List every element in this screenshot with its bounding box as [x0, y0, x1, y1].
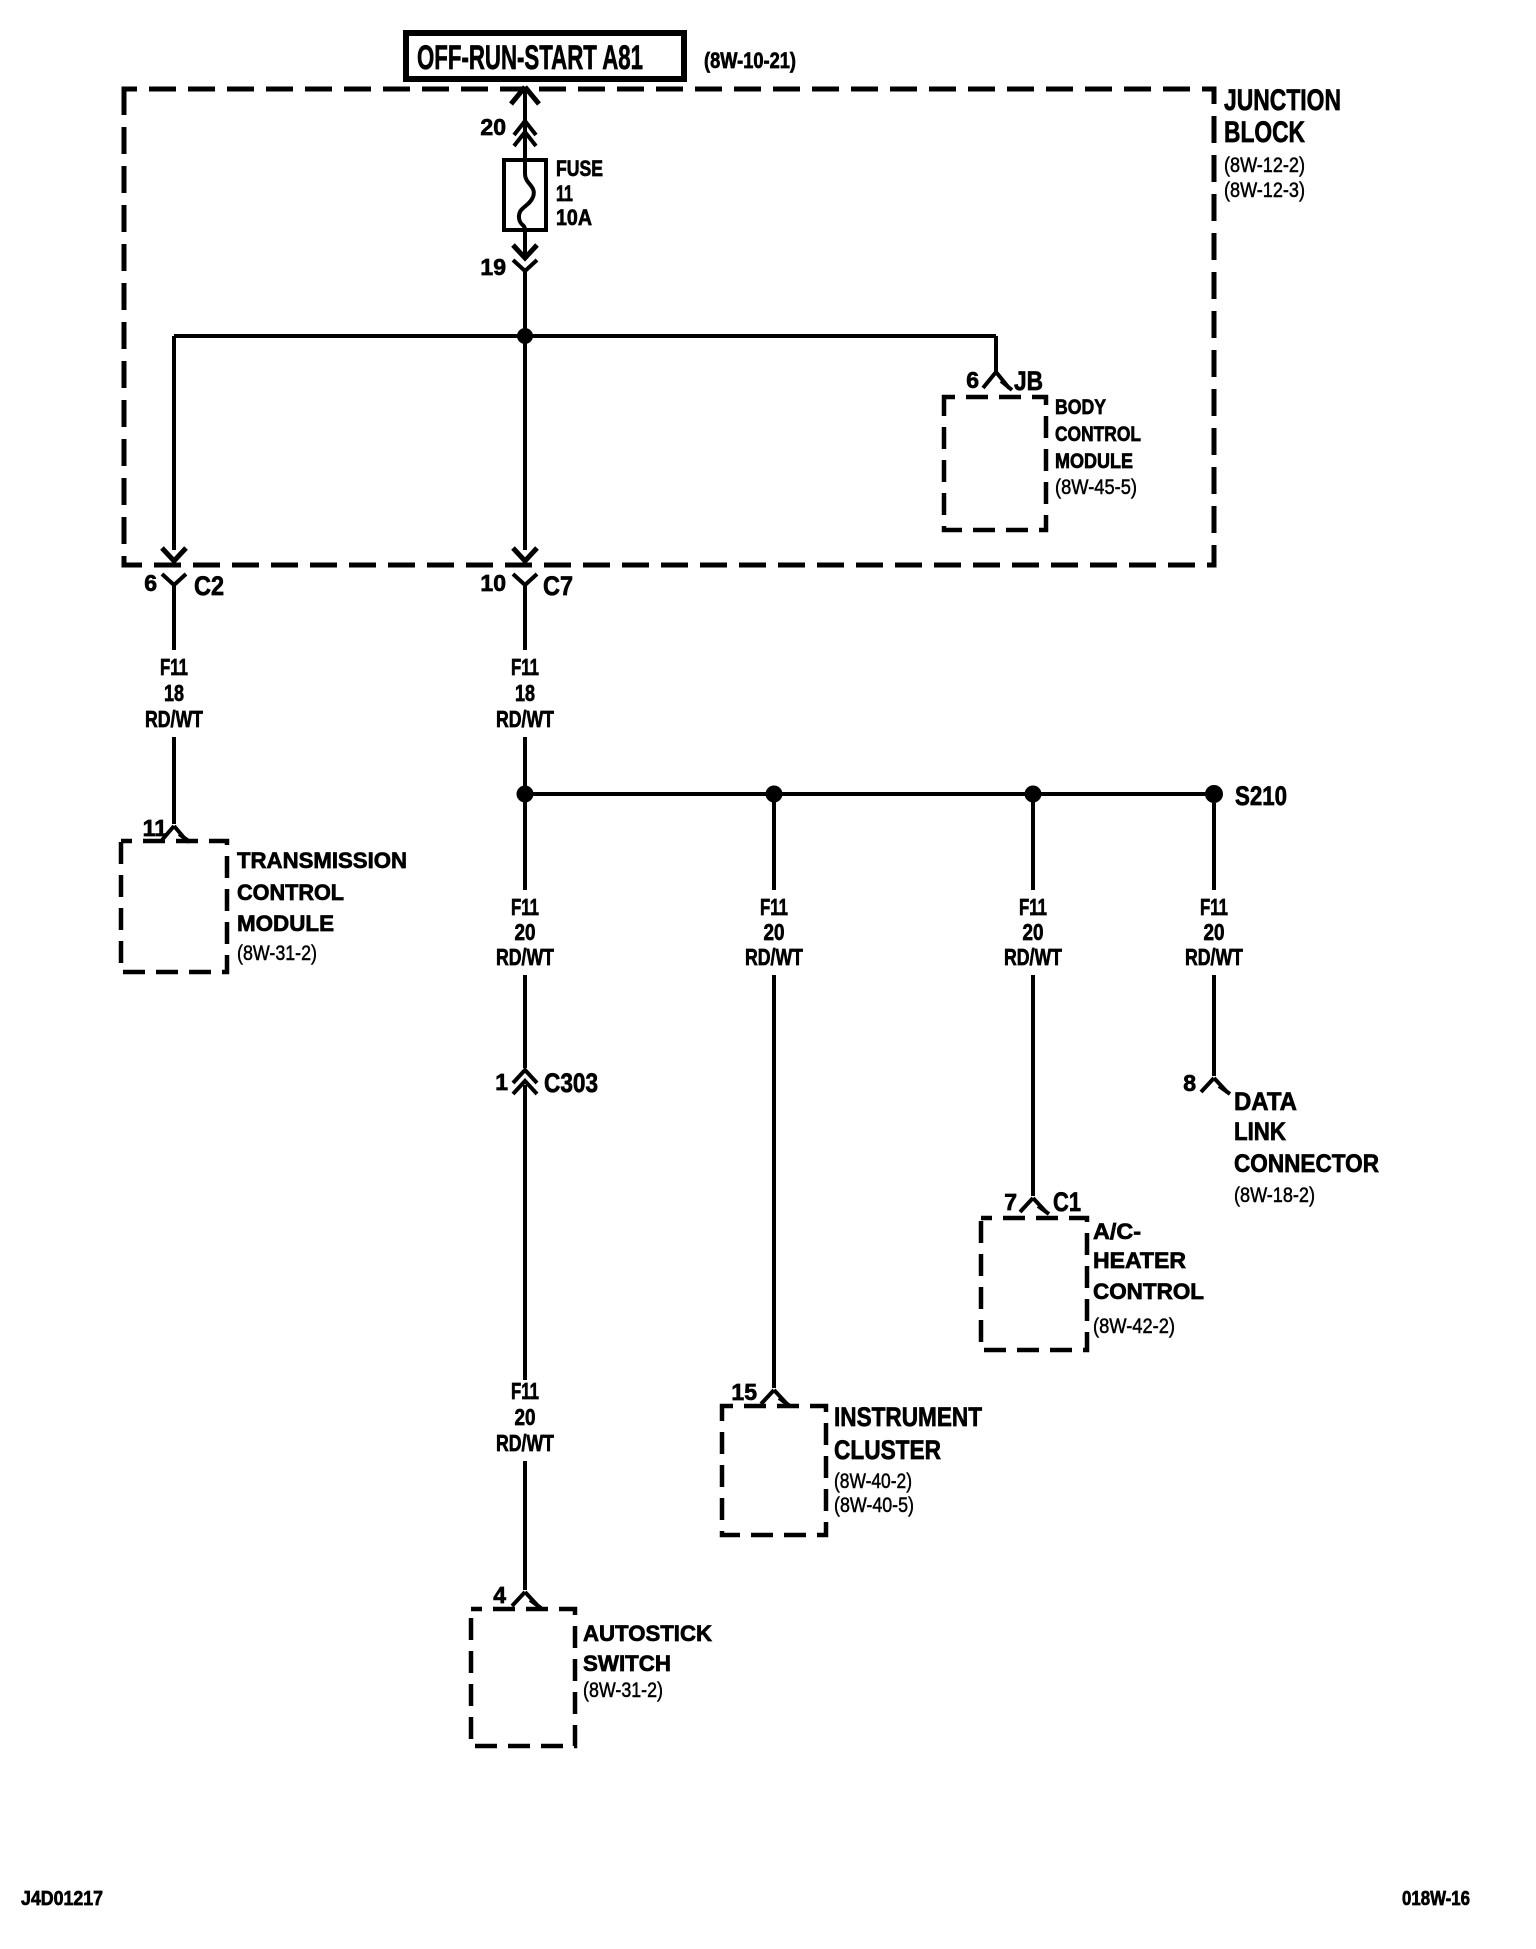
node A81 title box OFF-RUN-START: [406, 33, 684, 79]
wire col2 to instrument cluster: [772, 975, 776, 1388]
junction dot: [517, 328, 533, 344]
svg-text:RD/WT: RD/WT: [496, 944, 554, 970]
autostick switch dashed box: [471, 1609, 712, 1746]
svg-text:F11: F11: [160, 654, 188, 680]
svg-text:10A: 10A: [556, 205, 592, 230]
wire right branch to body control module: [994, 336, 998, 372]
svg-text:RD/WT: RD/WT: [745, 944, 803, 970]
svg-text:F11: F11: [511, 654, 539, 680]
wire to autostick switch: [523, 1461, 527, 1590]
svg-text:20: 20: [1023, 919, 1044, 945]
svg-text:F11: F11: [511, 1378, 539, 1404]
wire label F11 20 RD/WT (col1 lower): [496, 1378, 554, 1456]
svg-text:F11: F11: [1019, 894, 1047, 920]
wire label F11 18 RD/WT (center): [496, 654, 554, 732]
wire col1 below bus: [523, 802, 527, 890]
wire label F11 20 RD/WT (col2): [745, 894, 803, 970]
connector pin 4: [493, 1582, 541, 1608]
svg-text:C303: C303: [544, 1068, 598, 1098]
svg-text:(8W-31-2): (8W-31-2): [237, 942, 317, 965]
svg-text:LINK: LINK: [1234, 1118, 1286, 1146]
wire label F11 20 RD/WT (col3): [1004, 894, 1062, 970]
fuse F11 (FUSE 11 10A): [504, 156, 603, 230]
connector pin 11: [143, 815, 190, 842]
svg-text:(8W-12-2): (8W-12-2): [1224, 154, 1305, 177]
svg-text:20: 20: [480, 114, 506, 140]
svg-text:6: 6: [144, 570, 157, 596]
svg-text:DATA: DATA: [1234, 1088, 1297, 1116]
svg-text:19: 19: [480, 254, 506, 280]
svg-text:S210: S210: [1235, 781, 1287, 811]
wire col4 to data link connector: [1212, 975, 1216, 1076]
connector pin 8: [1183, 1070, 1230, 1096]
svg-text:CONTROL: CONTROL: [1093, 1279, 1204, 1304]
svg-text:C1: C1: [1053, 1187, 1081, 1217]
connector C303 pin 1 double chevron: [495, 1068, 598, 1098]
body control module dashed box: [944, 396, 1141, 530]
connector JB pin 6: [966, 366, 1043, 396]
svg-text:HEATER: HEATER: [1093, 1248, 1186, 1273]
data link connector label: [1234, 1088, 1379, 1207]
connector C2 pin 6: [144, 570, 224, 650]
svg-text:F11: F11: [511, 894, 539, 920]
svg-text:7: 7: [1004, 1189, 1017, 1215]
wire label F11 18 RD/WT (left): [145, 654, 203, 732]
svg-text:(8W-45-5): (8W-45-5): [1055, 476, 1137, 499]
pin 19 terminal: down arrow and Y: [480, 230, 537, 336]
svg-text:A/C-: A/C-: [1093, 1219, 1141, 1244]
svg-text:BODY: BODY: [1055, 396, 1106, 419]
svg-text:4: 4: [493, 1582, 506, 1608]
connector C7 pin 10: [480, 570, 573, 650]
splice bus wire S210: [525, 792, 1214, 796]
junction block dashed box: [124, 89, 1214, 565]
horizontal wire in junction block: [174, 334, 996, 338]
svg-text:CONTROL: CONTROL: [1055, 423, 1141, 446]
svg-text:BLOCK: BLOCK: [1224, 116, 1305, 149]
svg-text:RD/WT: RD/WT: [496, 1430, 554, 1456]
svg-text:AUTOSTICK: AUTOSTICK: [583, 1621, 712, 1646]
svg-text:1: 1: [495, 1069, 508, 1095]
wire label F11 20 RD/WT (col1): [496, 894, 554, 970]
svg-text:018W-16: 018W-16: [1402, 1888, 1470, 1910]
wire col3 below bus: [1031, 802, 1035, 890]
svg-text:C7: C7: [543, 571, 573, 601]
wire C303 down: [523, 1085, 527, 1380]
wire to transmission control module: [172, 737, 176, 824]
wire col1 to C303: [523, 975, 527, 1068]
svg-text:CLUSTER: CLUSTER: [834, 1435, 941, 1465]
svg-text:JUNCTION: JUNCTION: [1224, 84, 1341, 117]
wire col4 below bus: [1212, 803, 1216, 890]
wire col3 to a/c-heater control: [1031, 975, 1035, 1196]
svg-text:(8W-40-2): (8W-40-2): [834, 1470, 912, 1493]
svg-text:(8W-42-2): (8W-42-2): [1093, 1315, 1175, 1338]
instrument cluster dashed box: [722, 1402, 982, 1535]
svg-text:20: 20: [515, 1404, 536, 1430]
svg-text:SWITCH: SWITCH: [583, 1651, 671, 1676]
svg-text:(8W-31-2): (8W-31-2): [583, 1679, 663, 1702]
svg-text:C2: C2: [194, 571, 224, 601]
svg-text:CONNECTOR: CONNECTOR: [1234, 1150, 1379, 1178]
svg-text:MODULE: MODULE: [237, 911, 334, 936]
svg-text:(8W-12-3): (8W-12-3): [1224, 179, 1305, 202]
svg-text:(8W-40-5): (8W-40-5): [834, 1494, 914, 1517]
svg-text:20: 20: [764, 919, 785, 945]
svg-text:11: 11: [556, 181, 573, 206]
svg-text:CONTROL: CONTROL: [237, 880, 344, 905]
connector pin 15: [731, 1379, 790, 1406]
svg-text:18: 18: [164, 680, 184, 706]
svg-text:RD/WT: RD/WT: [145, 706, 203, 732]
svg-text:(8W-10-21): (8W-10-21): [704, 48, 796, 73]
a/c-heater control dashed box: [981, 1218, 1204, 1350]
svg-text:F11: F11: [760, 894, 788, 920]
wire col2 below bus: [772, 802, 776, 890]
svg-text:TRANSMISSION: TRANSMISSION: [237, 848, 407, 873]
svg-text:(8W-18-2): (8W-18-2): [1234, 1184, 1315, 1207]
svg-text:18: 18: [515, 680, 535, 706]
wire down to splice bus: [523, 737, 527, 794]
wire label F11 20 RD/WT (col4): [1185, 894, 1243, 970]
svg-text:10: 10: [480, 570, 506, 596]
svg-text:RD/WT: RD/WT: [496, 706, 554, 732]
svg-text:RD/WT: RD/WT: [1185, 944, 1243, 970]
svg-text:15: 15: [731, 1379, 757, 1405]
splice S210 end dot: [1205, 781, 1287, 811]
svg-text:OFF-RUN-START A81: OFF-RUN-START A81: [417, 39, 643, 77]
svg-text:FUSE: FUSE: [556, 156, 603, 181]
svg-text:JB: JB: [1014, 366, 1043, 396]
wire A81 to fuse with up arrow: [511, 87, 539, 160]
wire junction block left branch down to C2: [162, 336, 186, 561]
svg-text:INSTRUMENT: INSTRUMENT: [834, 1402, 982, 1432]
svg-text:RD/WT: RD/WT: [1004, 944, 1062, 970]
svg-text:20: 20: [515, 919, 536, 945]
svg-text:J4D01217: J4D01217: [21, 1888, 103, 1910]
junction dot col1: [517, 786, 534, 803]
junction dot col3: [1025, 786, 1042, 803]
pin 20 terminal double chevron: [480, 114, 536, 146]
svg-text:MODULE: MODULE: [1055, 450, 1133, 473]
junction dot col2: [766, 786, 783, 803]
svg-text:8: 8: [1183, 1070, 1196, 1096]
transmission control module dashed box: [121, 841, 407, 972]
svg-text:6: 6: [966, 367, 979, 393]
connector C1 pin 7: [1004, 1187, 1081, 1217]
svg-text:F11: F11: [1200, 894, 1228, 920]
junction block label: [1224, 84, 1341, 202]
wire center down to C7: [513, 336, 537, 561]
svg-text:20: 20: [1204, 919, 1225, 945]
svg-text:11: 11: [143, 815, 168, 841]
